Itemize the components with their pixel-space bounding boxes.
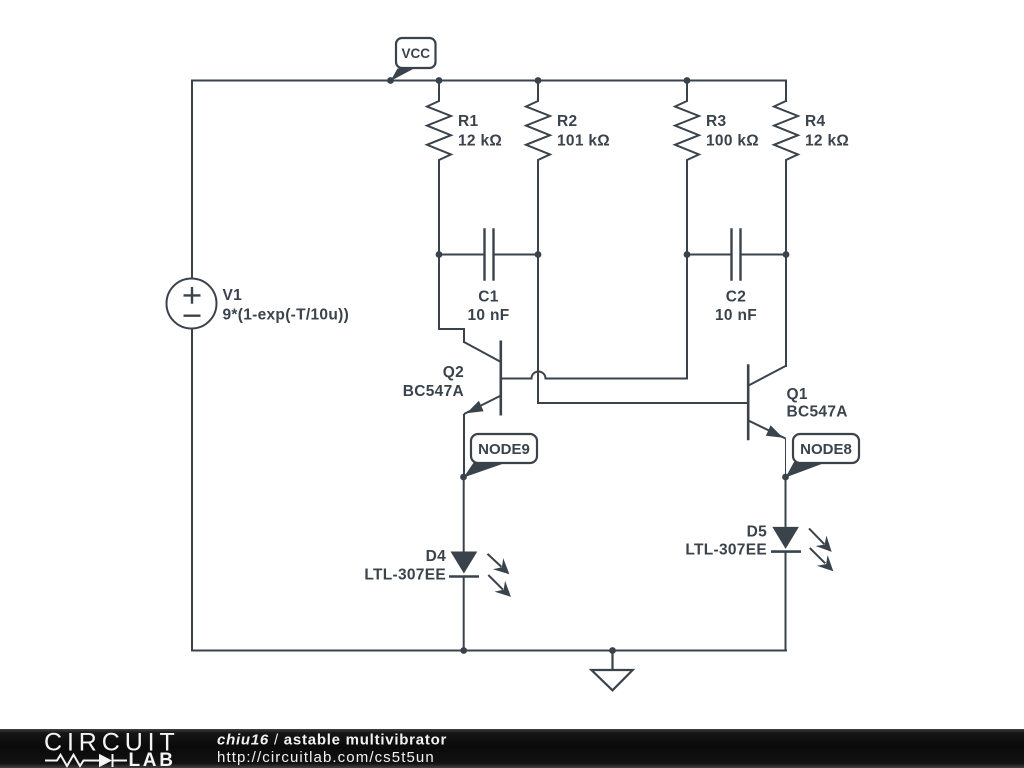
- resistor R2: [526, 81, 550, 255]
- capacitor C1 plates: [485, 230, 494, 280]
- wire cross-couple to Q1 base: [538, 402, 747, 404]
- svg-text:Q2: Q2: [443, 364, 464, 381]
- LED D5 wire upper: [785, 477, 787, 527]
- LED D5 light arrow 2: [810, 548, 825, 563]
- svg-text:R1: R1: [458, 113, 478, 130]
- svg-text:D5: D5: [747, 524, 767, 541]
- svg-text:LTL-307EE: LTL-307EE: [364, 567, 446, 584]
- LED D4 light arrow 2: [488, 575, 503, 590]
- svg-text:NODE9: NODE9: [478, 441, 530, 458]
- logo diode triangle: [99, 754, 112, 767]
- svg-text:101 kΩ: 101 kΩ: [557, 133, 610, 150]
- svg-text:chiu16 / astable multivibrator: chiu16 / astable multivibrator: [217, 732, 447, 749]
- wire bottom rail: [192, 650, 786, 652]
- svg-text:9*(1-exp(-T/10u)): 9*(1-exp(-T/10u)): [223, 307, 350, 324]
- wire left rail lower: [191, 329, 193, 651]
- capacitor C2 leads: [687, 254, 731, 256]
- wire R4 column top: [785, 81, 787, 102]
- node VCC flag: [391, 69, 415, 82]
- LED D4 light arrow 1: [488, 554, 511, 597]
- node NODE9 flag: [464, 462, 509, 478]
- LED D4 triangle: [451, 552, 478, 574]
- svg-text:V1: V1: [223, 287, 243, 304]
- transistor Q2: [464, 341, 501, 478]
- svg-text:D4: D4: [426, 548, 446, 565]
- resistor R4: [774, 101, 798, 255]
- svg-text:http://circuitlab.com/cs5t5un: http://circuitlab.com/cs5t5un: [217, 749, 435, 766]
- svg-text:VCC: VCC: [401, 46, 430, 61]
- LED D5 wire lower: [785, 552, 787, 651]
- transistor Q1: [748, 364, 785, 477]
- svg-text:C2: C2: [726, 289, 746, 306]
- LED D5 triangle: [772, 527, 799, 549]
- capacitor C2 plates: [732, 230, 741, 280]
- transistor Q1 emitter arrowhead: [766, 425, 783, 438]
- resistor R3: [675, 81, 699, 255]
- LED D5 cathode bar: [771, 550, 801, 553]
- resistor R1: [427, 81, 451, 255]
- capacitor C1 leads: [439, 254, 484, 256]
- svg-text:R4: R4: [805, 113, 825, 130]
- node NODE8 flag: [786, 462, 828, 478]
- svg-text:BC547A: BC547A: [403, 383, 464, 400]
- wire Q2 collector feed: [439, 255, 464, 343]
- wire to Q2 base with hop: [502, 372, 687, 379]
- voltage source V1 circle: [167, 279, 217, 329]
- ground: [591, 651, 632, 691]
- transistor Q2 emitter arrowhead: [467, 401, 484, 414]
- wire top rail: [192, 80, 786, 82]
- LED D4 wire upper: [463, 477, 465, 552]
- svg-text:Q1: Q1: [787, 386, 808, 403]
- V1 plus sign: [184, 287, 201, 304]
- svg-text:NODE8: NODE8: [800, 441, 852, 458]
- svg-text:R2: R2: [557, 113, 577, 130]
- svg-text:10 nF: 10 nF: [468, 307, 510, 324]
- svg-text:BC547A: BC547A: [787, 404, 848, 421]
- svg-text:LAB: LAB: [129, 750, 176, 768]
- svg-text:10 nF: 10 nF: [715, 307, 757, 324]
- svg-text:R3: R3: [706, 113, 726, 130]
- wire Q1 collector column: [785, 255, 787, 367]
- wire C1 right column down: [537, 255, 539, 404]
- V1 minus sign: [184, 315, 201, 317]
- svg-text:100 kΩ: 100 kΩ: [706, 133, 759, 150]
- svg-text:12 kΩ: 12 kΩ: [805, 133, 849, 150]
- LED D4 cathode bar: [449, 575, 479, 578]
- LED D5 light arrow 1: [809, 528, 833, 571]
- svg-text:LTL-307EE: LTL-307EE: [685, 542, 767, 559]
- svg-text:C1: C1: [478, 289, 498, 306]
- wire left rail upper: [191, 81, 193, 279]
- svg-text:12 kΩ: 12 kΩ: [458, 133, 502, 150]
- wire C2 left column down: [686, 255, 688, 379]
- logo resistor+diode glyph: [45, 754, 127, 767]
- LED D4 wire lower: [463, 577, 465, 651]
